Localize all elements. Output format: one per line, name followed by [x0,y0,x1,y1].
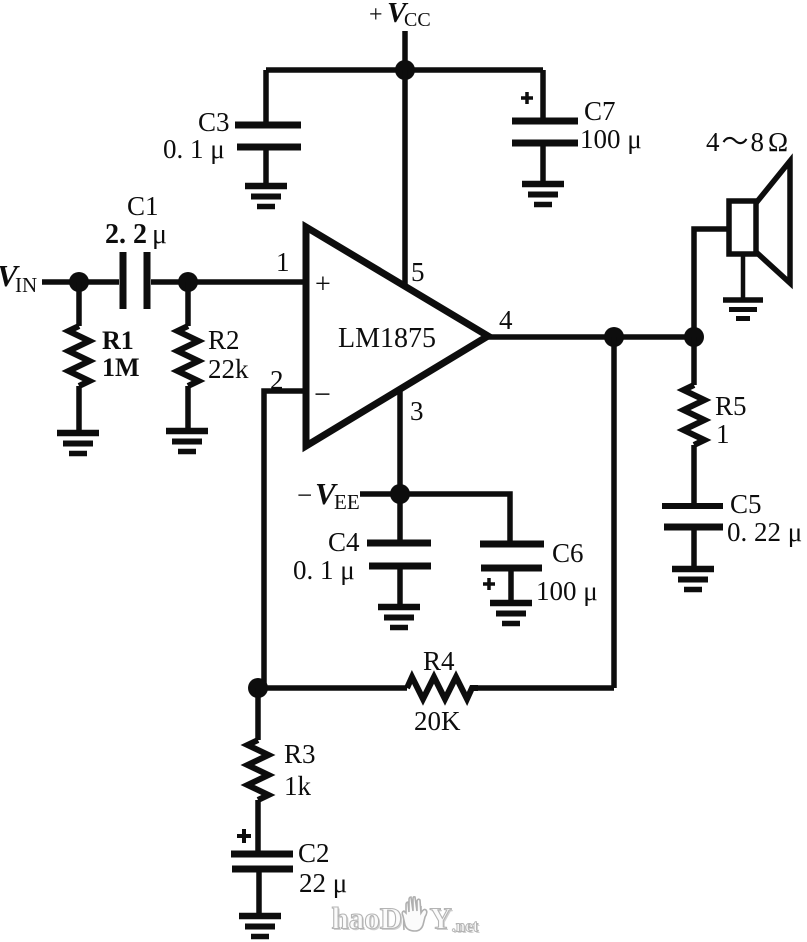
svg-text:R3: R3 [284,739,316,769]
svg-text:4〜8Ω: 4〜8Ω [706,127,788,157]
ground speaker [723,300,763,319]
wire pin 3 [397,390,403,540]
node feedback-R3 [248,678,268,698]
label +Vcc [369,0,431,31]
svg-text:1k: 1k [284,771,312,801]
node input junction [69,272,89,292]
resistor R5 [684,337,705,504]
svg-text:2. 2μ: 2. 2μ [105,219,167,250]
ground C2 [239,916,281,937]
svg-text:+: + [369,2,383,28]
svg-text:22k: 22k [208,354,249,384]
wire output [486,334,694,340]
resistor R4 [407,677,478,699]
svg-text:C2: C2 [298,838,330,868]
svg-text:Y: Y [430,901,452,936]
ground C3 [245,186,287,207]
node output-speaker [684,327,704,347]
wire Vcc stem [402,31,408,70]
svg-text:1M: 1M [102,353,140,382]
ground C6 [490,603,532,624]
capacitor C7 [512,92,578,184]
svg-text:0. 1 μ: 0. 1 μ [293,555,355,585]
svg-text:C6: C6 [552,538,584,568]
svg-text:0. 22 μ: 0. 22 μ [727,517,802,547]
svg-text:C7: C7 [584,96,616,126]
svg-text:CC: CC [404,9,431,31]
ground C7 [522,184,564,205]
capacitor C6 [480,544,544,603]
wire input [42,279,119,285]
hand logo of watermark [402,897,427,931]
wire C7 branch [540,70,546,118]
node after C1 [178,272,198,292]
svg-text:.net: .net [452,917,479,936]
svg-text:5: 5 [411,257,425,287]
ground R2 [166,431,208,452]
svg-text:C4: C4 [328,527,360,557]
svg-text:−: − [297,480,312,510]
wire pin 2 feedback [264,391,306,688]
ground C5 [672,569,714,590]
svg-text:1: 1 [716,419,730,449]
svg-text:C3: C3 [198,107,230,137]
svg-text:0. 1 μ: 0. 1 μ [163,134,225,164]
ground R1 [57,433,99,454]
capacitor C5 [662,506,723,569]
label VIN [0,258,37,297]
watermark haoDIY.net [332,897,481,937]
resistor R3 [248,688,269,851]
svg-text:C5: C5 [730,489,762,519]
svg-text:100 μ: 100 μ [536,576,598,606]
svg-text:22 μ: 22 μ [299,868,347,898]
node -Vee junction [390,484,410,504]
node output-feedback [604,327,624,347]
svg-text:LM1875: LM1875 [338,323,436,354]
wire C3 branch [263,70,269,122]
svg-text:1: 1 [276,247,290,277]
svg-text:C1: C1 [127,191,159,221]
svg-text:20K: 20K [414,706,461,736]
wire pin 5 to Vcc [402,70,408,284]
node Vcc junction [395,60,415,80]
svg-text:EE: EE [334,490,360,514]
svg-text:R5: R5 [715,391,747,421]
wire feedback horizontal [258,685,614,691]
capacitor C2 [231,829,293,915]
wire feedback vertical [611,337,617,688]
label -Vee [297,476,360,514]
wire -Vee rail [360,494,510,542]
svg-text:4: 4 [499,305,513,335]
svg-text:IN: IN [15,273,37,297]
capacitor C1 [123,252,147,309]
svg-text:R2: R2 [208,325,240,355]
wire C1 to pin 1 [151,279,306,285]
resistor R2 [178,282,199,430]
svg-text:R1: R1 [102,326,134,355]
op-amp U1 LM1875 [306,227,488,446]
svg-text:haoD: haoD [332,901,403,936]
wire top supply rail [266,67,543,73]
speaker LS [729,161,790,299]
svg-text:+: + [315,269,331,300]
ground C4 [378,607,420,628]
resistor R1 [69,282,90,432]
wire speaker branch [694,229,729,338]
capacitor C3 [235,125,301,186]
svg-text:−: − [314,378,331,411]
svg-text:R4: R4 [423,646,455,676]
svg-text:3: 3 [410,396,424,426]
svg-text:100 μ: 100 μ [580,124,642,154]
capacitor C4 [367,543,431,607]
